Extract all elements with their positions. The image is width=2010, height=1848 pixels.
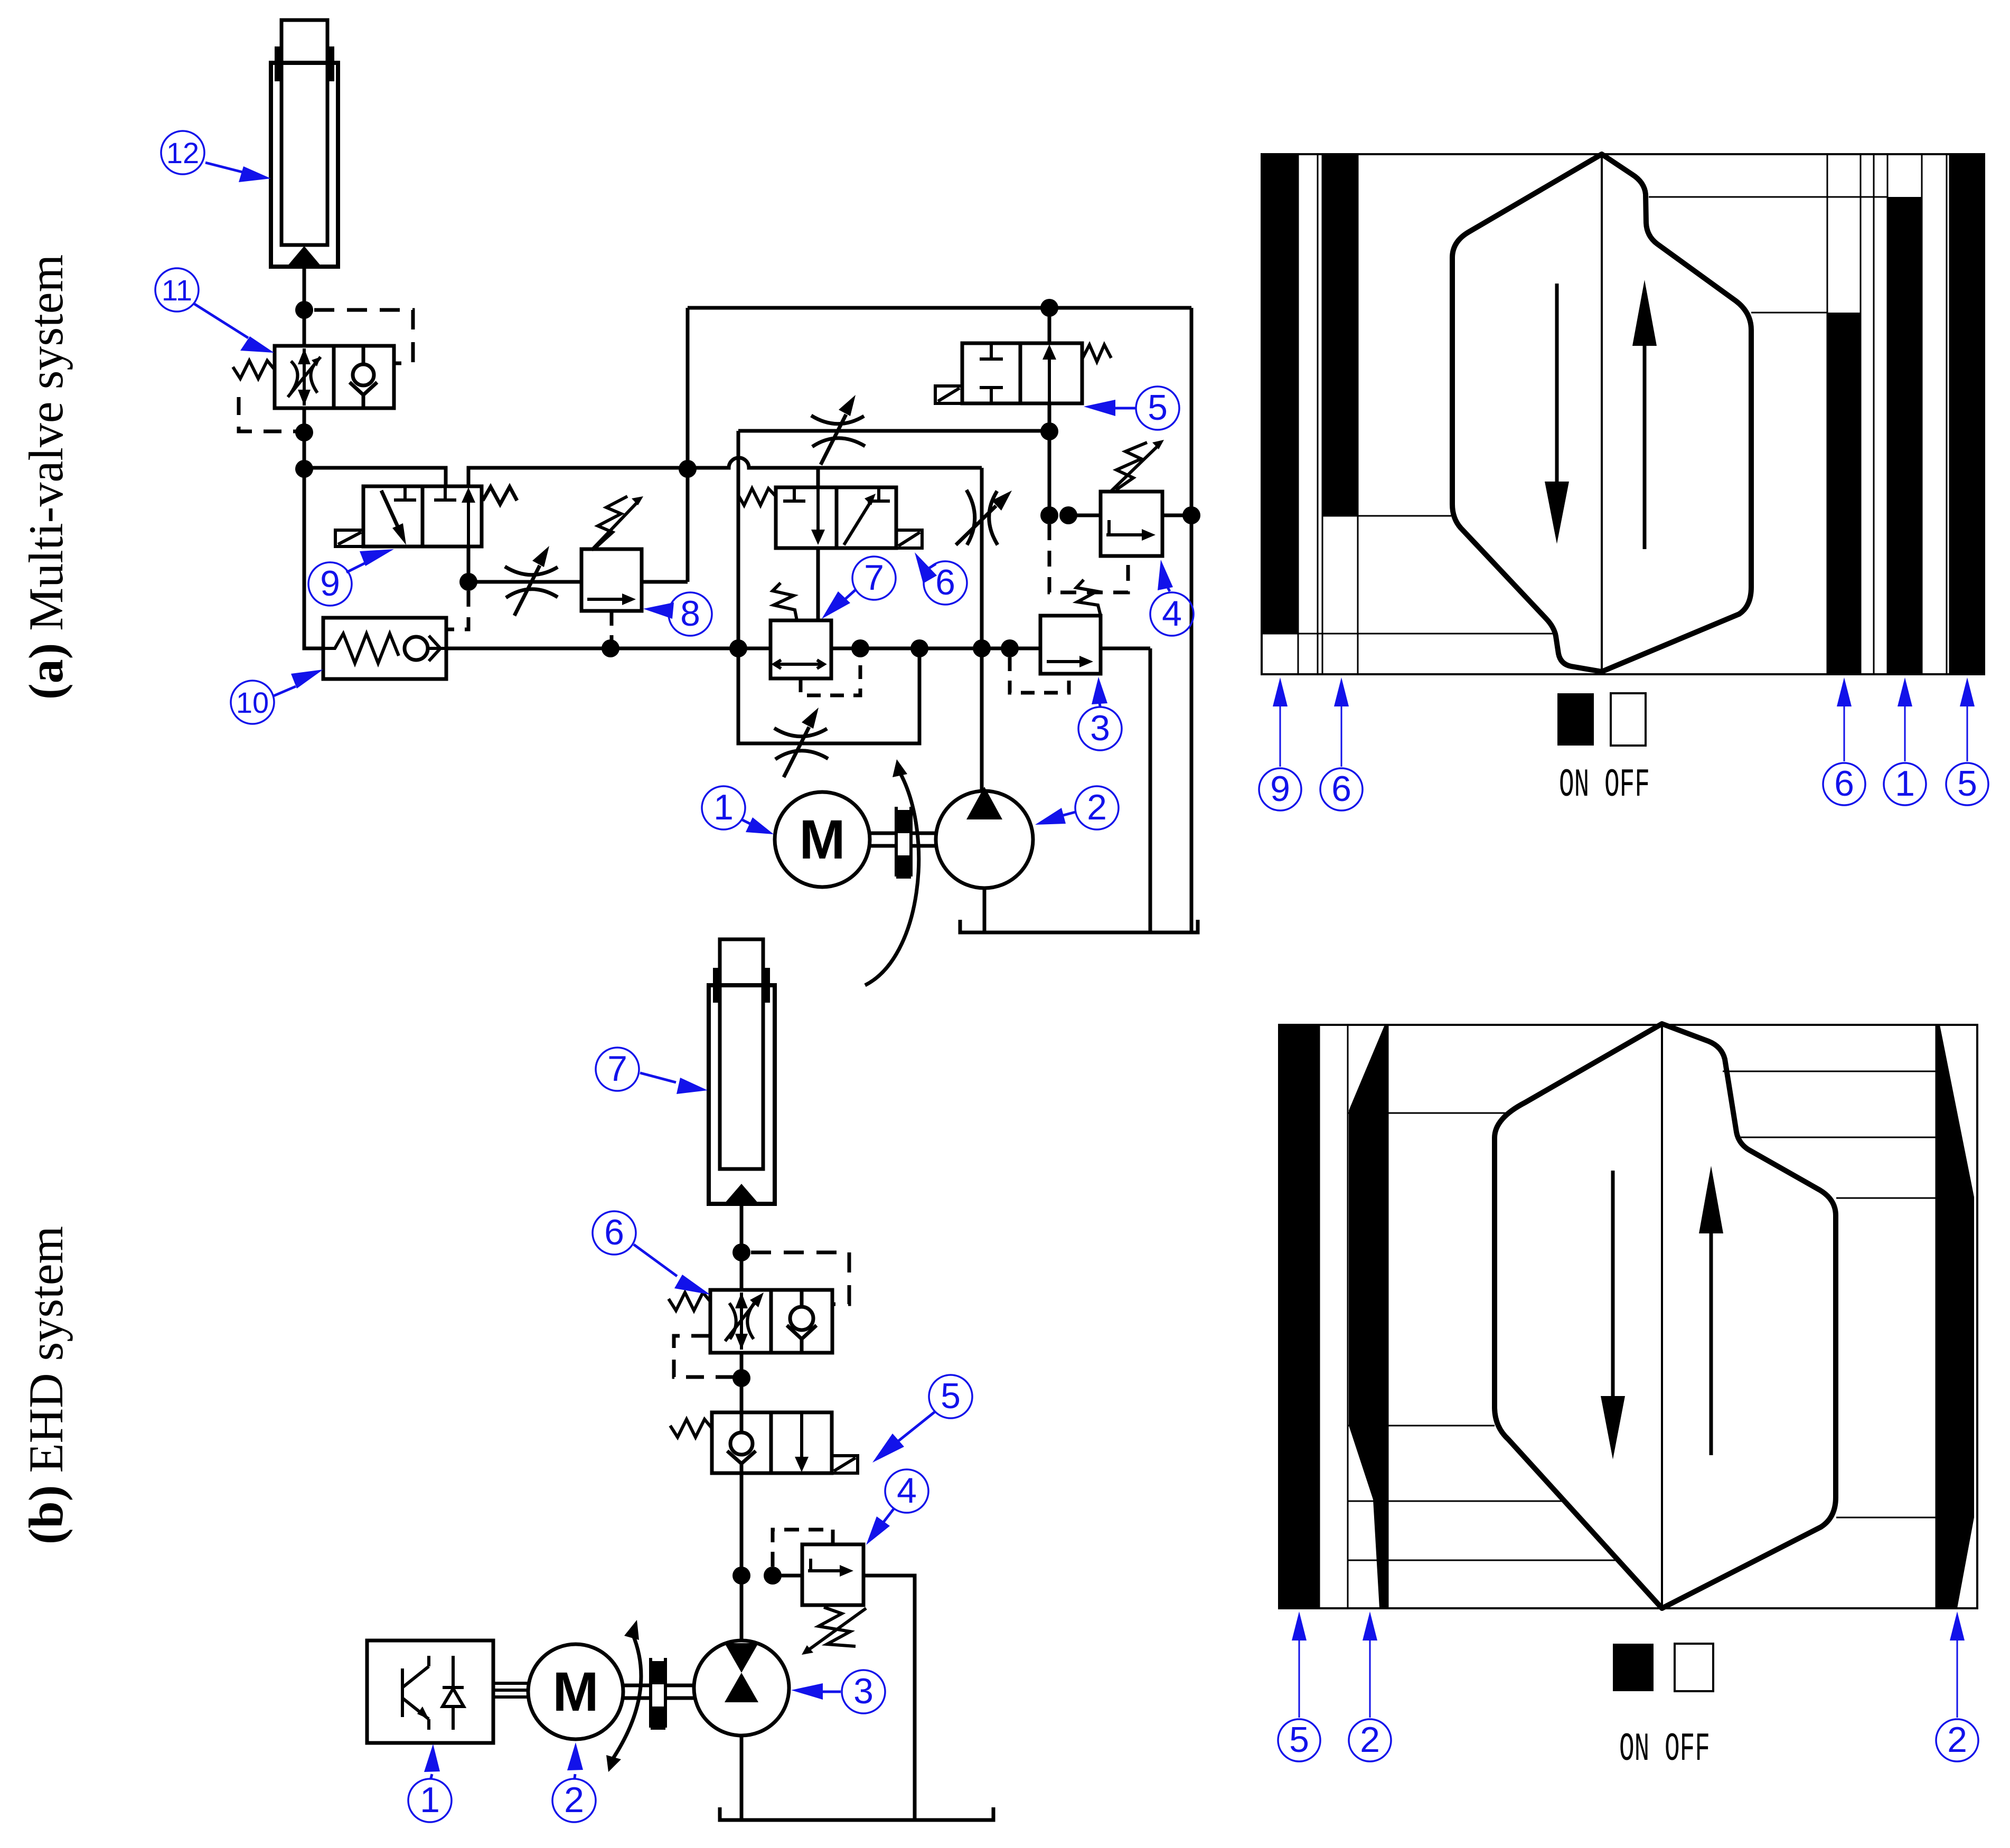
valve 4b spring (adjustable) <box>819 1607 856 1646</box>
valve 9 right cell flow arrow <box>467 495 470 546</box>
diagram 2 spool center line <box>1661 1024 1663 1608</box>
valve 4 pilot dash <box>1049 524 1128 592</box>
valve 11 check valve in right cell <box>353 364 374 385</box>
label 2a <box>1035 786 1119 829</box>
valve 4b pilot dash <box>773 1530 833 1567</box>
diagram 1 column lines right <box>1827 154 1950 674</box>
diagram 1 border <box>1262 154 1984 674</box>
diagram 2 down arrow <box>1611 1171 1615 1399</box>
valve 5 spring <box>1082 345 1111 362</box>
riser x=1302 <box>686 308 690 582</box>
diagram 1 horizontal line y=592 <box>1751 312 1827 314</box>
svg-text:6: 6 <box>1834 763 1854 804</box>
diagram 1 bar 5 (black) <box>1950 154 1984 674</box>
svg-text:1: 1 <box>1895 763 1915 804</box>
svg-text:7: 7 <box>607 1049 627 1089</box>
valve 11 pilot line lower (dashed) <box>239 397 299 431</box>
diagram 1 bar 9 (black) <box>1262 154 1298 634</box>
variable-speed arc on motor 1 <box>865 759 919 985</box>
svg-text:2: 2 <box>1087 787 1107 827</box>
diagram 1 horizontal line y=1200 <box>1262 633 1558 635</box>
valve 5 right cell up arrow <box>1048 353 1051 403</box>
diagram 1 label 9 <box>1259 677 1301 810</box>
svg-text:2: 2 <box>1947 1720 1967 1760</box>
diagram 2 column lines <box>1319 1025 1936 1608</box>
valve 5b solenoid box <box>832 1456 858 1473</box>
diagram 2 horizontal lines left <box>1348 1113 1616 1560</box>
wire valve6b to valve5b <box>740 1353 744 1412</box>
diagram 1 spool center line <box>1601 154 1603 672</box>
diagram 2 label 2 left <box>1349 1611 1391 1761</box>
throttle (adjustable) on valve8 line <box>505 546 558 616</box>
bypass loop with throttle under valve 7 <box>738 648 919 743</box>
valve 9 solenoid box <box>335 530 363 546</box>
diagram 1 bar 6 right (black) <box>1827 313 1861 674</box>
diagram 2 up arrow <box>1710 1230 1713 1455</box>
wire cylinder7 to valve6b <box>740 1204 744 1291</box>
valve 8 spring (adjustable) <box>596 496 627 547</box>
wire valve 9 to node B <box>467 546 471 582</box>
diagram 2 label 2 right <box>1936 1611 1978 1761</box>
diagram 1 bar 6 left (black) <box>1322 154 1358 516</box>
valve 11 flow-control/check combo <box>233 346 394 408</box>
valve 11 throttle in left cell <box>303 348 306 406</box>
throttle on y=816 <box>811 395 865 465</box>
vertical wire x=1398 <box>737 431 740 648</box>
valve 6 left cell down arrow <box>816 487 820 536</box>
wire node A to valve 9 top port <box>304 468 446 486</box>
diagram 1 legend OFF square <box>1611 693 1646 746</box>
coupling motor-pump (b) <box>623 1658 694 1730</box>
label 1a <box>702 786 774 834</box>
diagram 2 bar 2 left (black shape) <box>1349 1025 1388 1608</box>
variable-speed arc on motor 2b <box>606 1620 641 1772</box>
riser x=1987 through valve 5 <box>1048 308 1051 515</box>
svg-text:5: 5 <box>1957 763 1977 804</box>
valve 9 spring <box>483 487 517 504</box>
wire valve 9 right cell top riser <box>468 468 688 486</box>
diagram 2 label 5 <box>1278 1611 1320 1761</box>
svg-text:11: 11 <box>162 274 192 307</box>
diagram 2 legend ON square <box>1613 1644 1654 1691</box>
diagram 1 bar 1 (black) <box>1887 197 1922 674</box>
rail junction dots <box>602 639 619 657</box>
valve 6 spring <box>738 488 776 505</box>
sequence valve 3 <box>1010 580 1101 693</box>
node dot below cylinder 7 <box>732 1243 750 1261</box>
valve 4 spring (adjustable) <box>1116 442 1147 490</box>
svg-text:(a) Multi-valve system: (a) Multi-valve system <box>19 254 73 700</box>
valve 7 pilot dash <box>801 657 860 695</box>
electric motor 1 <box>775 792 870 887</box>
valve 6b check valve <box>790 1307 813 1330</box>
relief valve 4b <box>773 1530 866 1655</box>
valve 5b spring <box>670 1419 712 1437</box>
diagram 1 spool outline <box>1452 154 1751 672</box>
SECTION C: timing diagram 1 <box>1262 154 1984 808</box>
valve 6 right cell arrow <box>844 501 871 545</box>
node B dot below valve 9 <box>459 573 477 591</box>
electric motor 2b <box>528 1644 623 1739</box>
svg-text:(b) EHD system: (b) EHD system <box>19 1226 73 1544</box>
node dot between valve11 and node A <box>295 423 313 441</box>
tank part (a) <box>960 920 1198 932</box>
relief valve 8 <box>581 496 643 648</box>
label 10 <box>231 670 323 724</box>
wire valve 8 to right riser <box>642 580 688 584</box>
label 7a <box>822 557 896 619</box>
pilot dash to valve 10 <box>448 591 468 629</box>
cylinder 12 <box>271 20 338 267</box>
diagram 1 down arrow <box>1555 284 1559 485</box>
valve 5 left cell blocked Ts <box>980 343 1003 403</box>
horizontal wire y=886 with hop <box>688 458 982 468</box>
driver wires to motor <box>493 1683 528 1697</box>
node dot below cylinder 12 <box>295 301 313 319</box>
relief valve 4 <box>1049 440 1164 592</box>
svg-text:ON OFF: ON OFF <box>1559 763 1650 808</box>
valve 7 spring <box>773 583 797 620</box>
svg-text:6: 6 <box>604 1212 624 1252</box>
node dot riser/horizontal <box>679 460 697 478</box>
valve 6 left cell blocked T <box>783 487 805 501</box>
SECTION D: timing diagram 2 <box>1279 1024 1977 1772</box>
pump 3 bidirectional <box>694 1640 789 1820</box>
wire valve3 outlet to tank <box>1149 648 1152 932</box>
diagram 1 label 6 left <box>1320 677 1363 810</box>
vertical wire x=1859 with throttle <box>980 468 984 648</box>
valve 6 solenoid 3/2 <box>738 487 922 548</box>
diagram 1 label 5 <box>1946 677 1988 805</box>
stub into valve 6 <box>816 468 820 487</box>
wire cylinder12 to valve11 <box>303 267 306 346</box>
throttle on bypass loop <box>774 708 828 777</box>
valve 6b flow-control/check combo <box>669 1290 832 1353</box>
label 4a <box>1150 560 1194 636</box>
node dot y=816 valve5 riser <box>1040 422 1058 440</box>
diagram 2 border <box>1279 1025 1977 1608</box>
driver diode symbol <box>443 1656 464 1730</box>
label 3b <box>791 1670 885 1713</box>
diagram 2 horizontal lines right <box>1723 1071 1936 1517</box>
svg-text:4: 4 <box>1162 593 1182 634</box>
valve 11 spring <box>233 361 275 379</box>
wire valve 4b to tank <box>863 1576 915 1820</box>
valve 6b pilot lower dash <box>674 1336 733 1377</box>
wire valve6 to valve7 <box>816 548 820 620</box>
svg-text:2: 2 <box>1360 1720 1380 1760</box>
wire node B to throttle and valve 8 <box>468 580 581 584</box>
diagram 1 column lines left <box>1298 154 1358 674</box>
wire to relief valve 4b <box>773 1574 802 1578</box>
SECTION A: part (a) circuit <box>19 20 1200 985</box>
valve 5 solenoid box <box>935 386 962 403</box>
label 4b <box>866 1469 928 1545</box>
svg-text:3: 3 <box>1090 708 1110 748</box>
label 1b <box>408 1744 452 1822</box>
label 6a <box>915 552 967 605</box>
valve 7 reducing valve <box>771 583 860 695</box>
svg-text:5: 5 <box>1148 388 1168 428</box>
wire y=816 with throttle <box>738 429 1049 433</box>
label 5a <box>1084 386 1179 430</box>
SECTION B: part (b) circuit <box>19 939 993 1820</box>
right rail down to tank <box>1190 308 1194 932</box>
node dot between valves <box>732 1369 750 1387</box>
label 7b <box>596 1048 708 1094</box>
label 8 <box>643 592 712 636</box>
svg-text:6: 6 <box>1331 769 1351 809</box>
valve 3 pilot dash <box>1010 657 1069 693</box>
svg-text:9: 9 <box>1270 769 1290 809</box>
wire to valve 4 <box>1068 514 1101 517</box>
label 9a <box>308 549 394 606</box>
diagram 2 spool outline <box>1495 1024 1836 1608</box>
driver transistor symbol <box>402 1656 429 1730</box>
svg-text:5: 5 <box>941 1376 961 1416</box>
label 6b <box>593 1211 710 1295</box>
pump 2 <box>936 648 1033 932</box>
node dots near valve 4 <box>1040 506 1058 524</box>
diagram 2 legend OFF square <box>1675 1644 1713 1691</box>
valve 11 pilot line upper (dashed) <box>314 310 413 363</box>
svg-text:12: 12 <box>166 136 199 169</box>
valve 5b solenoid 2/2 <box>670 1412 858 1473</box>
wire valve11 to node A <box>303 408 306 469</box>
diagram 1 horizontal line y=373 <box>1649 196 1887 198</box>
label 5b <box>872 1375 972 1463</box>
label 2b <box>552 1742 596 1822</box>
node dot top rail valve5 <box>1040 299 1058 317</box>
svg-text:10: 10 <box>236 686 269 719</box>
diagram 1 up arrow <box>1643 342 1647 549</box>
valve 6 solenoid box <box>896 530 922 548</box>
valve 5 solenoid 2/2 <box>935 343 1111 403</box>
valve 9 right cell blocked port T <box>434 486 456 500</box>
tank part (b) <box>720 1807 993 1820</box>
node dot right rail <box>1182 506 1200 524</box>
diagram 1 legend ON square <box>1557 693 1594 746</box>
motor driver 1b <box>367 1640 528 1743</box>
svg-text:3: 3 <box>853 1671 873 1711</box>
svg-text:8: 8 <box>680 593 700 634</box>
wire valve5b to pump <box>740 1473 744 1640</box>
diagram 2 bar 5 (black) <box>1279 1025 1319 1608</box>
throttle on x=1859 <box>956 490 1012 545</box>
wire valve 4 to right rail <box>1162 514 1191 517</box>
valve 5b check valve left cell <box>730 1432 753 1455</box>
counterbalance valve 10 <box>323 618 446 679</box>
diagram 1 horizontal line y=977 <box>1322 515 1451 517</box>
svg-text:1: 1 <box>713 787 734 827</box>
valve 9 solenoid 3/2 <box>335 486 517 546</box>
valve 6b pilot upper dash <box>751 1252 849 1304</box>
svg-text:4: 4 <box>897 1470 917 1511</box>
diagram 2 bar 2 right (black shape) <box>1936 1025 1974 1608</box>
valve 9 left cell arrow <box>381 491 398 526</box>
svg-text:9: 9 <box>320 563 340 604</box>
cylinder 7 <box>709 939 775 1204</box>
valve 3 spring <box>1076 580 1101 616</box>
valve 8 drain stub <box>610 611 614 648</box>
valve 6 right cell blocked T <box>868 487 890 501</box>
svg-text:5: 5 <box>1289 1720 1309 1760</box>
label 12 <box>161 131 271 182</box>
top rail y=583 <box>688 306 1191 310</box>
svg-text:ON OFF: ON OFF <box>1619 1727 1710 1772</box>
diagram 1 label 1 <box>1884 677 1926 805</box>
svg-text:7: 7 <box>864 558 884 598</box>
valve 5b right cell down arrow <box>800 1412 803 1463</box>
valve 9 left cell blocked port T <box>394 486 416 500</box>
valve 6b spring <box>669 1293 710 1310</box>
svg-text:1: 1 <box>420 1780 440 1820</box>
svg-text:2: 2 <box>564 1780 584 1820</box>
svg-text:M: M <box>799 809 845 871</box>
coupling motor-pump <box>870 807 936 879</box>
svg-text:6: 6 <box>935 562 955 602</box>
svg-text:M: M <box>552 1661 598 1723</box>
node A junction dot <box>295 460 313 478</box>
lower rail y=1228 <box>304 469 1150 648</box>
valve 6b throttle <box>740 1293 743 1350</box>
label 11 <box>155 268 274 353</box>
node dots at relief tap <box>732 1567 750 1585</box>
diagram 1 label 6 right <box>1823 677 1865 805</box>
label 3a <box>1078 677 1122 750</box>
